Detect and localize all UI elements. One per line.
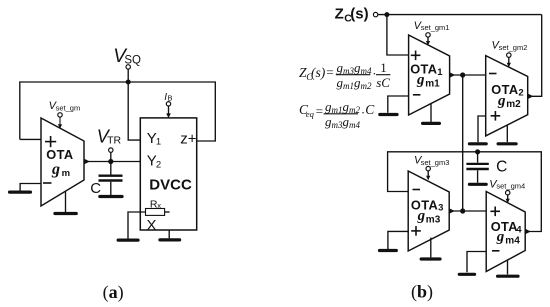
svg-text:DVCC: DVCC <box>149 176 192 193</box>
svg-text:g: g <box>416 72 425 88</box>
svg-text:TR: TR <box>107 134 121 146</box>
svg-text:m2: m2 <box>506 99 521 110</box>
svg-text:1: 1 <box>437 67 443 78</box>
svg-text:set_gm: set_gm <box>56 104 81 113</box>
svg-text:set_gm2: set_gm2 <box>499 43 528 52</box>
svg-text:C: C <box>496 158 507 175</box>
svg-text:m2: m2 <box>361 81 372 91</box>
svg-text:set_gm4: set_gm4 <box>496 182 525 191</box>
svg-text:=: = <box>326 65 333 80</box>
svg-text:m3: m3 <box>426 214 441 225</box>
svg-text:x: x <box>157 201 161 210</box>
svg-text:z+: z+ <box>180 131 197 148</box>
svg-text:set_gm1: set_gm1 <box>421 23 450 32</box>
svg-text:=: = <box>316 103 323 118</box>
svg-text:2: 2 <box>156 159 161 170</box>
svg-text:4: 4 <box>516 225 522 236</box>
svg-text:m4: m4 <box>505 236 520 247</box>
svg-text:m3: m3 <box>332 120 343 130</box>
svg-text:X: X <box>147 217 157 234</box>
svg-text:(a): (a) <box>103 282 124 303</box>
svg-text:2: 2 <box>518 88 523 99</box>
svg-text:(b): (b) <box>411 282 433 303</box>
svg-text:g: g <box>51 161 60 178</box>
svg-text:(s): (s) <box>311 65 326 80</box>
svg-text:set_gm3: set_gm3 <box>421 158 450 167</box>
svg-text:(s): (s) <box>350 6 368 23</box>
svg-text:g: g <box>497 93 506 109</box>
svg-text:m: m <box>62 168 70 179</box>
svg-text:m1: m1 <box>425 78 440 89</box>
svg-text:m1: m1 <box>343 81 354 91</box>
svg-text:1: 1 <box>380 60 387 75</box>
svg-text:g: g <box>417 208 426 224</box>
svg-text:B: B <box>168 94 173 103</box>
svg-text:sC: sC <box>376 75 390 90</box>
svg-text:3: 3 <box>438 203 443 214</box>
svg-text:Z: Z <box>335 6 344 23</box>
svg-text:1: 1 <box>156 137 161 148</box>
svg-text:m4: m4 <box>349 120 360 130</box>
svg-text:C: C <box>365 102 375 117</box>
svg-text:eq: eq <box>306 109 315 119</box>
svg-text:OTA: OTA <box>491 219 518 234</box>
svg-text:SQ: SQ <box>124 54 141 66</box>
svg-text:C: C <box>90 180 101 197</box>
svg-text:g: g <box>496 229 505 245</box>
